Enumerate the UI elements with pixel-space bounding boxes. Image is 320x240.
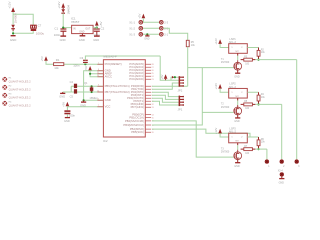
svg-text:GND: GND <box>279 181 285 184</box>
svg-text:21: 21 <box>97 72 99 74</box>
wire output net driver 1 <box>259 59 297 61</box>
wire AGND net <box>84 71 103 101</box>
svg-text:PB5(SCK): PB5(SCK) <box>131 130 144 134</box>
svg-text:7: 7 <box>98 105 99 107</box>
ground (C2) <box>93 36 100 42</box>
wire +12V to LED connector 1 <box>220 44 229 48</box>
svg-text:PD7(AIN1): PD7(AIN1) <box>131 105 144 109</box>
transistor T1 2N7000 <box>221 58 242 70</box>
wire gate net driver1 (from R5 net) <box>188 67 234 69</box>
connector X1 pin 4 <box>160 21 169 25</box>
svg-text:24: 24 <box>152 76 154 78</box>
svg-text:26: 26 <box>152 70 154 72</box>
svg-text:PB6(XTAL1/TOSC1): PB6(XTAL1/TOSC1) <box>105 84 130 88</box>
svg-text:R1: R1 <box>56 58 60 62</box>
connector X1 pin 5 <box>160 27 169 31</box>
wire reset net <box>46 61 103 64</box>
svg-text:1: 1 <box>268 166 270 168</box>
transistor T3 2N7000 <box>221 147 242 159</box>
wire PB4 route <box>152 129 250 137</box>
resistor R6 <box>257 137 265 149</box>
wire ISP row3 <box>143 33 160 35</box>
wire +12V input top <box>13 12 33 25</box>
svg-text:PC0(ADC0): PC0(ADC0) <box>129 77 144 81</box>
svg-text:+5V: +5V <box>160 74 164 79</box>
pad X2-3 <box>295 159 301 168</box>
resistor R7 (gate) <box>241 146 259 155</box>
svg-text:2: 2 <box>241 137 243 139</box>
svg-text:12: 12 <box>152 104 154 106</box>
connector X1 pin 1 <box>129 21 142 25</box>
resistor R1 10k <box>54 58 64 70</box>
wire XTAL1 <box>71 85 103 87</box>
supply +5V arrow (JP2) <box>160 74 168 80</box>
svg-text:AVCC: AVCC <box>105 75 112 79</box>
ground (C6) <box>64 118 70 123</box>
connector X1 pin 6 <box>160 33 169 37</box>
svg-text:C2: C2 <box>101 27 105 31</box>
svg-text:PC6(/RESET): PC6(/RESET) <box>105 62 122 66</box>
svg-text:C5: C5 <box>70 94 74 98</box>
wire +12V to LED connector 3 <box>220 133 229 137</box>
svg-text:28: 28 <box>152 64 154 66</box>
ground (input) <box>10 36 16 42</box>
capacitor C1 100n <box>54 26 67 37</box>
svg-text:1: 1 <box>231 137 233 139</box>
ground (crystal caps) <box>59 92 65 99</box>
svg-text:10k: 10k <box>261 52 266 54</box>
svg-text:JP1: JP1 <box>178 107 183 111</box>
pad X2-1 <box>265 159 271 168</box>
junction XTAL1 <box>91 85 93 87</box>
capacitor C5 <box>70 89 78 98</box>
connector X1 pin 3 <box>129 33 142 37</box>
wire +5V rail down to JP2 <box>160 56 180 80</box>
MCU left pin numbers <box>97 63 99 108</box>
junction JP2 pin1 <box>174 76 176 78</box>
wire PD5 to JP1 pin4 <box>152 101 180 105</box>
svg-text:C1: C1 <box>54 26 58 30</box>
svg-text:+5V: +5V <box>40 56 44 61</box>
pad X2-4 (ground) <box>278 170 284 177</box>
svg-text:9: 9 <box>98 85 99 87</box>
connector X1 pin 2 <box>129 27 142 31</box>
ground (MCU gnd) <box>80 100 86 107</box>
supply +5V arrow (regulator output) <box>95 21 103 28</box>
svg-text:MEGA8-P: MEGA8-P <box>103 54 117 58</box>
svg-text:1N4004: 1N4004 <box>13 13 17 24</box>
wire output net driver 2 <box>259 103 282 105</box>
svg-text:3: 3 <box>298 166 300 168</box>
pin header JP1 <box>178 96 184 112</box>
junction driver 2 <box>257 103 259 105</box>
LED strip connector LSP1 <box>229 37 248 53</box>
svg-text:7805T: 7805T <box>71 20 80 24</box>
svg-text:2-3: 2-3 <box>164 21 168 25</box>
svg-text:GND: GND <box>234 165 240 168</box>
svg-text:2N7000: 2N7000 <box>221 61 230 64</box>
wire driver output to pad 1 <box>266 149 268 159</box>
svg-text:10k: 10k <box>261 142 266 144</box>
svg-text:1: 1 <box>98 63 99 65</box>
svg-text:X1-3: X1-3 <box>129 33 135 37</box>
svg-text:GND: GND <box>60 38 66 42</box>
svg-text:+12V: +12V <box>57 2 61 9</box>
svg-text:JP2: JP2 <box>178 89 183 93</box>
supply +12V arrow (driver 1) <box>214 38 222 45</box>
wire R5 down to PD0 net <box>187 47 189 87</box>
ground (pad X2-4) <box>279 177 285 185</box>
svg-text:GND: GND <box>105 98 111 102</box>
wire C3 top to +5V rail (long horizontal) <box>85 56 160 60</box>
svg-text:QUANT-HOLE3.2: QUANT-HOLE3.2 <box>9 96 32 100</box>
wire XTAL2 <box>71 91 103 93</box>
MCU right pin numbers <box>152 64 154 134</box>
svg-text:2-1: 2-1 <box>164 33 168 37</box>
wire PD4 to JP1 pin3 <box>152 98 180 102</box>
svg-text:2: 2 <box>241 47 243 49</box>
wire JP2 pin1 <box>171 77 180 80</box>
wire vertical PB3 to driver2 gate <box>152 68 234 125</box>
svg-text:GND: GND <box>59 95 65 99</box>
junction XTAL2 <box>91 91 93 93</box>
resistor R5 (gate) <box>241 101 259 110</box>
capacitor C6 100n (VCC decoupling) <box>64 110 75 117</box>
wire ISP row1 <box>143 21 160 23</box>
svg-text:GND: GND <box>144 38 150 41</box>
svg-text:2N7000: 2N7000 <box>221 106 230 109</box>
svg-text:19: 19 <box>152 132 154 134</box>
svg-text:GND: GND <box>234 120 240 123</box>
wire D2 to regulator input <box>63 13 71 27</box>
svg-text:Q1: Q1 <box>84 81 88 85</box>
svg-text:100n: 100n <box>73 63 80 67</box>
svg-text:25: 25 <box>152 73 154 75</box>
ground (driver 3) <box>234 160 240 168</box>
supply +12V arrow (driver 2) <box>214 83 222 90</box>
svg-text:QUANT-HOLE3.2: QUANT-HOLE3.2 <box>9 104 32 108</box>
supply +5V arrow (reset pull-up) <box>40 56 48 61</box>
junction driver 3 <box>257 148 259 150</box>
wire driver output to pad 2 <box>281 104 283 159</box>
svg-text:GND: GND <box>234 75 240 78</box>
supply +5V arrow (ISP header) <box>138 14 146 23</box>
ground (regulator) <box>79 34 86 42</box>
polarity mark (serial) <box>172 76 175 79</box>
junction <box>12 32 14 34</box>
svg-text:2: 2 <box>283 166 285 168</box>
svg-text:+5V: +5V <box>138 14 142 19</box>
svg-text:X1-2: X1-2 <box>129 27 135 31</box>
pad X2-2 <box>280 159 286 168</box>
svg-text:1N4004: 1N4004 <box>66 4 70 14</box>
wire output net driver 3 <box>259 148 267 150</box>
svg-text:27: 27 <box>152 67 154 69</box>
LED strip connector LSP2 <box>229 82 248 98</box>
resistor R5 <box>186 40 195 47</box>
svg-text:23: 23 <box>152 79 154 81</box>
capacitor C7 polarized 1000u <box>31 24 45 36</box>
svg-text:100n: 100n <box>54 33 61 37</box>
svg-text:GND: GND <box>93 38 99 42</box>
supply +12V arrow (driver 3) <box>214 128 222 135</box>
wire ISP row2 <box>143 27 160 29</box>
svg-text:2: 2 <box>241 92 243 94</box>
junction <box>89 73 91 75</box>
svg-text:OUT: OUT <box>85 28 90 30</box>
LED strip connector LSP3 <box>229 126 248 142</box>
svg-text:20: 20 <box>97 75 99 77</box>
wire PD3 to JP1 pin2 <box>152 95 180 99</box>
svg-text:10k: 10k <box>54 66 59 70</box>
svg-text:10k: 10k <box>191 44 196 47</box>
crystal Q1 <box>84 81 98 100</box>
svg-text:100: 100 <box>245 153 250 155</box>
wire connector to R6 <box>247 136 258 138</box>
svg-text:22: 22 <box>97 99 99 101</box>
svg-text:10: 10 <box>97 90 99 92</box>
ground (ISP row3) <box>144 34 150 40</box>
svg-text:VCC: VCC <box>105 105 111 109</box>
mounting hole H3 <box>2 93 31 100</box>
svg-text:C4: C4 <box>70 80 74 84</box>
svg-text:R6: R6 <box>261 139 265 141</box>
svg-text:PB1(OC1A): PB1(OC1A) <box>129 115 144 119</box>
mounting hole H1 <box>2 77 31 84</box>
svg-text:GND: GND <box>64 119 70 123</box>
junction row3 gnd <box>146 33 148 35</box>
svg-text:C3: C3 <box>80 56 84 60</box>
MCU right pin stubs <box>146 64 152 132</box>
wire +12V to LED connector 2 <box>220 89 229 93</box>
junction driver 1 <box>257 59 259 61</box>
svg-text:1: 1 <box>231 92 233 94</box>
svg-text:15: 15 <box>152 117 154 119</box>
mounting hole H4 <box>2 101 31 108</box>
supply +5V arrow (AVCC/AREF) <box>84 66 92 71</box>
svg-text:1000u: 1000u <box>36 32 45 36</box>
svg-text:+12V: +12V <box>214 83 218 90</box>
pin header JP2 <box>178 76 184 92</box>
transistor T2 2N7000 <box>221 103 242 115</box>
capacitor C2 100n <box>93 27 104 37</box>
wire PB2 to driver3 gate <box>152 121 234 157</box>
ground (driver 1) <box>234 70 240 78</box>
wire caps to ground <box>63 86 71 92</box>
wire VCC <box>67 106 103 110</box>
svg-text:8: 8 <box>98 69 99 71</box>
svg-text:X1-1: X1-1 <box>129 21 135 25</box>
svg-text:2N7000: 2N7000 <box>221 151 230 154</box>
supply +5V arrow (VCC) <box>61 102 69 107</box>
svg-text:IN: IN <box>73 28 76 30</box>
resistor R2 <box>257 48 265 60</box>
wire connector MT to transistor drain <box>237 143 239 145</box>
ground (driver 2) <box>234 115 240 123</box>
svg-text:QUANT-HOLE3.2: QUANT-HOLE3.2 <box>9 88 32 92</box>
MCU left pin names <box>105 62 130 109</box>
wire PD2 to JP1 pin1 <box>152 92 180 96</box>
svg-text:PB3(MOSI/OC2): PB3(MOSI/OC2) <box>123 123 144 127</box>
supply +12V arrow (regulator input) <box>57 2 65 9</box>
svg-text:100: 100 <box>245 108 250 110</box>
wire PD0 to JP2 pin4 / ISP <box>152 85 188 87</box>
MCU left pin stubs <box>97 64 103 107</box>
ground (C1) <box>60 36 67 42</box>
svg-text:PB7(XTAL2/TOSC2): PB7(XTAL2/TOSC2) <box>105 90 130 94</box>
svg-text:GND: GND <box>79 32 84 34</box>
svg-text:+12V: +12V <box>8 2 12 9</box>
wire connector to R2 <box>247 47 258 49</box>
svg-text:100: 100 <box>245 63 250 65</box>
wire PD1 to JP2 pin3 <box>152 83 180 89</box>
diode D1 <box>11 13 17 31</box>
svg-text:GND: GND <box>79 38 85 42</box>
svg-text:R2: R2 <box>261 49 265 51</box>
svg-text:IC2: IC2 <box>103 139 108 143</box>
svg-text:13: 13 <box>152 107 154 109</box>
wire AVCC/AREF <box>90 71 103 77</box>
wire connector to R4 <box>247 91 258 93</box>
junction <box>62 27 64 29</box>
MCU right pin names <box>123 62 144 134</box>
svg-text:100n: 100n <box>69 113 76 117</box>
junction <box>96 27 98 29</box>
svg-text:10k: 10k <box>261 97 266 99</box>
microcontroller IC2 MEGA8-P box <box>103 54 145 143</box>
svg-text:1: 1 <box>231 47 233 49</box>
mounting hole H2 <box>2 85 31 92</box>
svg-text:+12V: +12V <box>214 38 218 45</box>
junction <box>83 99 85 101</box>
capacitor C3 100n <box>73 56 88 67</box>
svg-text:+12V: +12V <box>214 128 218 135</box>
wire connector MT to transistor drain <box>237 98 239 100</box>
svg-text:GND: GND <box>10 38 16 42</box>
svg-text:+5V: +5V <box>61 102 65 107</box>
svg-text:14: 14 <box>152 114 154 116</box>
svg-text:R4: R4 <box>261 94 265 96</box>
resistor R4 <box>257 92 265 104</box>
junction (reset/C3) <box>84 63 86 65</box>
wire D1 to ground rail <box>13 31 33 35</box>
svg-text:X2-4: X2-4 <box>278 170 284 173</box>
wire connector MT to transistor drain <box>237 53 239 55</box>
svg-text:PB2(SS/OC1B): PB2(SS/OC1B) <box>125 119 144 123</box>
wire driver output to pad 3 <box>296 60 298 160</box>
svg-text:QUANT-HOLE3.2: QUANT-HOLE3.2 <box>9 80 32 84</box>
svg-text:C7: C7 <box>38 24 42 28</box>
wire regulator output <box>93 27 97 29</box>
supply +12V arrow (input section) <box>8 2 15 12</box>
resistor R3 (gate) <box>241 56 259 65</box>
diode D2 <box>61 4 70 14</box>
voltage regulator IC1 7805T <box>71 16 93 33</box>
capacitor C4 <box>70 80 78 88</box>
wire ISP row2 to resistor R5 <box>163 28 188 40</box>
